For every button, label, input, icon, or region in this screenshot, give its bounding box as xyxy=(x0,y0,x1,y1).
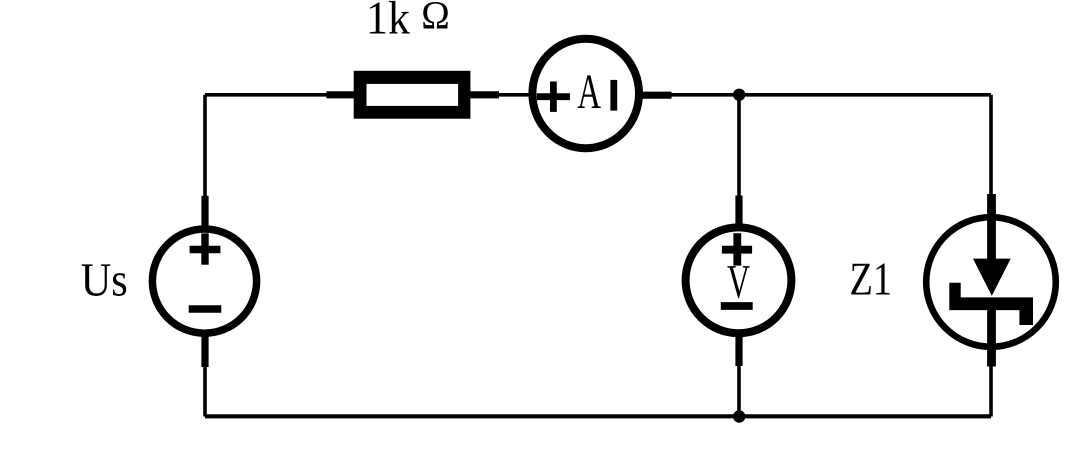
svg-text:A: A xyxy=(577,64,601,119)
svg-text:Z1: Z1 xyxy=(850,253,893,305)
svg-text:1k: 1k xyxy=(366,0,410,44)
svg-text:Us: Us xyxy=(81,254,128,306)
svg-text:Ω: Ω xyxy=(421,0,450,37)
svg-text:V: V xyxy=(727,256,750,309)
